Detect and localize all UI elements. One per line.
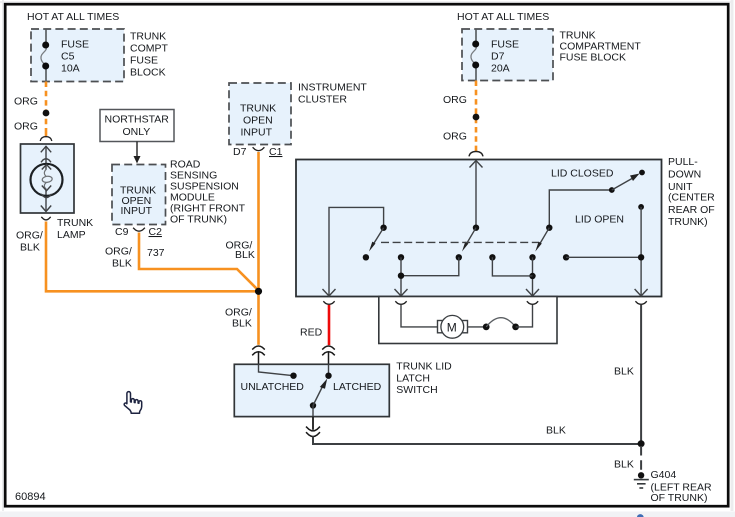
connector cup C1 xyxy=(253,147,265,150)
latch switch blade xyxy=(313,379,327,406)
svg-text:20A: 20A xyxy=(491,63,510,75)
svg-text:TRUNK: TRUNK xyxy=(130,31,166,43)
fuse D7 value labels xyxy=(491,39,519,75)
label ORG/BLK (737 wire) xyxy=(105,246,132,270)
svg-text:BLK: BLK xyxy=(20,242,40,254)
pin D7 xyxy=(233,146,247,158)
label ORG (right upper) xyxy=(443,94,467,106)
motor enclosure box xyxy=(379,297,557,344)
svg-text:BLK: BLK xyxy=(614,459,634,471)
svg-text:FUSE: FUSE xyxy=(61,39,89,51)
switch S3 contact xyxy=(529,254,535,260)
switch S1 pivot xyxy=(380,225,386,231)
label LID CLOSED xyxy=(551,168,614,180)
connector cap at pull-down unit xyxy=(469,151,483,156)
inline connector node left xyxy=(483,324,490,331)
motor M1 xyxy=(438,315,468,338)
wire motor right xyxy=(468,326,487,328)
svg-text:NORTHSTAR: NORTHSTAR xyxy=(105,114,170,126)
wire ORG/BLK splice to latch switch xyxy=(257,291,260,345)
junction S3 bus xyxy=(529,273,535,279)
wire ORG/BLK from cluster to splice xyxy=(257,152,260,291)
svg-text:BLK: BLK xyxy=(546,425,566,437)
connector pair above latch (unlatched) xyxy=(252,346,265,364)
svg-text:ORG: ORG xyxy=(14,121,38,133)
label HOT AT ALL TIMES (right) xyxy=(457,11,549,23)
connector cup below unit (motor right) xyxy=(527,301,538,304)
pull-down unit box xyxy=(296,160,662,297)
svg-text:INPUT: INPUT xyxy=(121,205,153,217)
arrow exit S3 xyxy=(526,289,539,296)
label 60894 xyxy=(15,491,46,503)
svg-text:D7: D7 xyxy=(233,146,247,158)
label G404 (LEFT REAR OF TRUNK) xyxy=(651,469,712,504)
label BLK (right vertical) xyxy=(614,366,634,378)
wire ORG/BLK from trunk lamp to splice xyxy=(46,222,259,292)
svg-text:BLK: BLK xyxy=(235,249,255,261)
inline connector node right xyxy=(512,324,519,331)
wire to motor right exit xyxy=(516,305,533,327)
lid open contact node xyxy=(638,204,644,210)
bottom blue dot xyxy=(637,514,644,517)
ground node G404 xyxy=(638,472,644,478)
svg-text:REAR OF: REAR OF xyxy=(668,204,715,216)
svg-text:CLUSTER: CLUSTER xyxy=(298,94,347,106)
connector cup below trunk lamp xyxy=(41,217,50,220)
svg-text:ORG/: ORG/ xyxy=(105,246,132,258)
connector cup below unit (motor left) xyxy=(395,301,406,304)
pin C2 xyxy=(149,226,163,238)
svg-text:LID CLOSED: LID CLOSED xyxy=(551,168,614,180)
svg-text:FUSE: FUSE xyxy=(491,39,519,51)
svg-text:LID OPEN: LID OPEN xyxy=(575,214,624,226)
label LID OPEN xyxy=(575,214,624,226)
svg-text:COMPT: COMPT xyxy=(130,43,169,55)
svg-text:TRUNK: TRUNK xyxy=(240,103,276,115)
label UNLATCHED xyxy=(241,381,305,393)
instrument cluster box xyxy=(229,83,291,145)
connector pair below latch xyxy=(306,427,320,437)
svg-text:ORG/: ORG/ xyxy=(16,230,43,242)
svg-text:ORG: ORG xyxy=(14,96,38,108)
arrow exit right xyxy=(635,289,648,296)
svg-text:BLK: BLK xyxy=(112,258,132,270)
label TRUNK OPEN INPUT (module) xyxy=(120,185,156,218)
switch S1 feed wire xyxy=(329,207,384,296)
wire below latch xyxy=(312,417,314,430)
junction BLK xyxy=(638,440,645,447)
wire stub to bus xyxy=(492,257,532,276)
label ORG/BLK (to latch) xyxy=(225,307,252,330)
svg-text:BLK: BLK xyxy=(614,366,634,378)
wire BLK right vertical xyxy=(640,305,642,444)
svg-text:HOT AT ALL TIMES: HOT AT ALL TIMES xyxy=(27,11,119,23)
svg-text:C1: C1 xyxy=(269,146,283,158)
arrow exit left (to red wire) xyxy=(323,289,336,296)
svg-text:M: M xyxy=(447,320,457,334)
svg-text:FUSE: FUSE xyxy=(130,55,158,67)
switch S1 blade xyxy=(369,228,384,252)
trunk lid latch switch box xyxy=(234,364,389,416)
svg-text:BLOCK: BLOCK xyxy=(130,67,166,79)
connector cup below unit (red) xyxy=(323,301,334,304)
wire 737 ORG/BLK from module to splice xyxy=(139,233,259,291)
switch S2 blade xyxy=(462,228,476,252)
lid closed switch wire xyxy=(549,190,612,228)
label BLK (ground) xyxy=(614,459,634,471)
pin C9 xyxy=(115,226,129,238)
svg-text:UNLATCHED: UNLATCHED xyxy=(241,381,305,393)
svg-text:C9: C9 xyxy=(115,226,129,238)
connector cup C2 xyxy=(133,228,145,231)
label BLK (bottom run) xyxy=(546,425,566,437)
lid closed switch blade xyxy=(612,174,640,191)
svg-text:LATCHED: LATCHED xyxy=(333,381,382,393)
pin C1 xyxy=(269,146,283,158)
latch switch pivot xyxy=(310,402,316,408)
trunk lamp box xyxy=(21,144,75,213)
junction middle bus xyxy=(398,273,404,279)
northstar only box xyxy=(100,110,174,142)
fuse block box (trunk compt fuse block) xyxy=(31,29,124,82)
stub contact node xyxy=(489,254,495,260)
label ORG xyxy=(14,96,38,108)
label ORG/BLK (cluster wire) xyxy=(226,240,255,262)
svg-text:D7: D7 xyxy=(491,51,505,63)
label TRUNK OPEN INPUT (cluster) xyxy=(240,103,276,139)
label ROAD SENSING SUSPENSION MODULE xyxy=(170,159,246,226)
svg-text:ORG: ORG xyxy=(443,131,467,143)
lid closed contact xyxy=(639,170,645,176)
trunk lamp bulb xyxy=(31,146,63,212)
label LATCHED xyxy=(333,381,382,393)
label TRUNK LID LATCH SWITCH xyxy=(396,361,452,397)
latch pivot exit wire xyxy=(312,406,314,417)
wire S3 exit xyxy=(532,257,534,296)
wire BLK bottom run xyxy=(313,436,641,444)
latch latched contact xyxy=(325,373,331,379)
wire S2 contact to bus xyxy=(401,257,459,275)
svg-text:10A: 10A xyxy=(61,63,80,75)
svg-text:OF TRUNK): OF TRUNK) xyxy=(651,492,708,504)
wire middle exit xyxy=(400,257,402,296)
svg-text:OF TRUNK): OF TRUNK) xyxy=(170,214,227,226)
svg-text:HOT AT ALL TIMES: HOT AT ALL TIMES xyxy=(457,11,549,23)
svg-text:ONLY: ONLY xyxy=(123,126,151,138)
svg-text:TRUNK: TRUNK xyxy=(57,217,93,229)
ground symbol xyxy=(634,480,649,488)
lid closed switch pivot xyxy=(609,187,615,193)
latch unlatched terminal wire xyxy=(259,364,294,375)
mechanical linkage dashed xyxy=(381,241,539,243)
wire ORG dashed from fuse C5 xyxy=(45,82,48,137)
svg-text:INSTRUMENT: INSTRUMENT xyxy=(298,82,367,94)
svg-text:BLK: BLK xyxy=(232,318,252,330)
wire RED xyxy=(328,305,331,345)
latch latched terminal wire xyxy=(328,364,330,375)
splice node (right) xyxy=(473,114,480,121)
svg-text:LATCH: LATCH xyxy=(396,372,430,384)
connector cup below unit (blk) xyxy=(635,301,646,304)
svg-text:(CENTER: (CENTER xyxy=(668,191,715,203)
connector pair above latch (latched) xyxy=(322,346,335,364)
fuse D7 20A xyxy=(471,29,479,81)
switch S1 contact xyxy=(363,254,369,260)
junction lid open xyxy=(638,254,644,260)
lid open stub node xyxy=(563,254,569,260)
mouse cursor xyxy=(124,392,142,414)
svg-text:LAMP: LAMP xyxy=(57,229,86,241)
svg-text:INPUT: INPUT xyxy=(241,127,273,139)
svg-text:SWITCH: SWITCH xyxy=(396,384,437,396)
wire BLK dashed to ground xyxy=(640,446,642,471)
svg-text:C5: C5 xyxy=(61,51,75,63)
svg-text:PULL-: PULL- xyxy=(668,156,698,168)
label RED xyxy=(300,327,323,339)
fuse C5 10A xyxy=(41,29,49,82)
svg-text:TRUNK): TRUNK) xyxy=(668,216,708,228)
svg-text:OPEN: OPEN xyxy=(243,115,273,127)
switch S3 pivot xyxy=(546,225,552,231)
inline connector arc xyxy=(486,318,515,327)
fuse block box (trunk compartment fuse block) xyxy=(462,29,553,81)
svg-text:ORG: ORG xyxy=(443,94,467,106)
svg-text:G404: G404 xyxy=(651,469,677,481)
label ORG xyxy=(14,121,38,133)
wire ORG dashed from fuse D7 xyxy=(475,81,478,152)
wire lid open vertical xyxy=(640,207,642,296)
label PULL-DOWN UNIT (CENTER REAR OF TRUNK) xyxy=(668,156,715,228)
wire ORG input arrow into unit xyxy=(470,161,483,228)
label ORG/BLK (trunk lamp) xyxy=(16,230,43,254)
switch S2 contact xyxy=(456,254,462,260)
svg-text:RED: RED xyxy=(300,327,323,339)
wire lid open stub xyxy=(566,256,641,258)
svg-text:FUSE BLOCK: FUSE BLOCK xyxy=(560,52,627,64)
label TRUNK COMPARTMENT FUSE BLOCK xyxy=(560,30,642,64)
arrow northstar to module xyxy=(134,142,141,164)
label 737 xyxy=(147,247,165,259)
switch S3 blade xyxy=(535,228,549,252)
svg-text:C2: C2 xyxy=(149,226,163,238)
splice node ORG/BLK xyxy=(255,288,262,295)
arrow exit middle xyxy=(395,289,408,296)
label HOT AT ALL TIMES (left) xyxy=(27,11,119,23)
splice node xyxy=(43,110,50,117)
svg-text:DOWN: DOWN xyxy=(668,168,701,180)
node middle exit xyxy=(398,254,404,260)
switch S2 pivot xyxy=(473,225,479,231)
label TRUNK COMPT FUSE BLOCK xyxy=(130,31,169,79)
label INSTRUMENT CLUSTER xyxy=(298,82,367,106)
svg-text:60894: 60894 xyxy=(15,491,46,503)
road sensing suspension module box xyxy=(112,165,166,225)
label ORG (right lower) xyxy=(443,131,467,143)
connector cap at trunk lamp xyxy=(40,137,52,141)
svg-text:737: 737 xyxy=(147,247,165,259)
svg-text:TRUNK LID: TRUNK LID xyxy=(396,361,452,373)
wire motor left xyxy=(401,305,438,327)
label TRUNK LAMP xyxy=(57,217,93,241)
fuse C5 value labels xyxy=(61,39,89,75)
latch unlatched contact xyxy=(290,373,296,379)
